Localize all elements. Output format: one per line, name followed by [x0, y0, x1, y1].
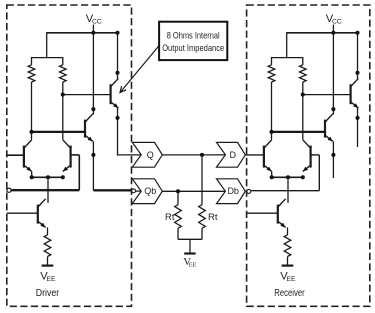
transistor Q7 (receiver diff pair right)	[310, 146, 312, 168]
wire R1 to collector node	[31, 82, 33, 132]
svg-text:VCC: VCC	[86, 13, 102, 26]
junction dot rail right end (receiver)	[355, 31, 359, 35]
junction dot Q9 collector node	[331, 107, 335, 111]
resistor R1	[28, 65, 35, 82]
svg-text:Rt: Rt	[208, 212, 218, 223]
svg-text:Driver: Driver	[36, 288, 60, 299]
transistor Q1 (driver diff pair left)	[23, 146, 25, 168]
wire input line to Q2 base corner	[11, 189, 79, 191]
wire emitter rail (driver)	[32, 176, 63, 178]
svg-text:VEE: VEE	[183, 256, 196, 269]
junction dot rail right end (driver)	[115, 31, 119, 35]
wire Q output to D input	[162, 154, 225, 156]
annotation box 8 Ohms Internal Output Impedance	[159, 22, 227, 60]
annotation arrow line	[120, 46, 159, 93]
transistor Q4 (driver phase splitter)	[84, 120, 86, 138]
wire Q4 emitter to Qb input	[93, 189, 131, 191]
wire VCC rail (driver)	[47, 32, 118, 34]
wire Q7 base corner down	[318, 155, 320, 191]
svg-text:Qb: Qb	[144, 186, 156, 196]
transistor Q3 (driver output emitter follower)	[109, 84, 111, 104]
svg-text:VEE: VEE	[280, 270, 296, 283]
resistor R3 (driver emitter resistor)	[44, 235, 51, 257]
resistor R2 stub	[62, 57, 64, 65]
wire Q5 base from box edge	[7, 212, 37, 214]
wire node B down to Q7 collector	[302, 95, 304, 140]
resistor R1 stub	[31, 57, 33, 65]
wire Q9 emitter down (open stub)	[332, 141, 334, 178]
svg-text:VEE: VEE	[40, 270, 56, 283]
junction dot emitter rail right (receiver)	[301, 175, 305, 179]
annotation arrowhead	[120, 86, 126, 93]
wire Q4 emitter down to Qb feed	[92, 141, 94, 190]
svg-text:Q: Q	[147, 150, 154, 160]
svg-text:8 Ohms Internal: 8 Ohms Internal	[167, 30, 220, 40]
transistor Q10 (receiver current source)	[277, 205, 279, 224]
svg-text:Rt: Rt	[165, 212, 175, 223]
wire Q10 emitter down to R6	[287, 227, 289, 235]
junction dot emitter rail mid (receiver)	[286, 175, 290, 179]
wire down to Rt left	[177, 191, 179, 204]
VEE rail symbol (driver)	[42, 265, 54, 267]
junction dot node B	[301, 93, 305, 97]
svg-text:VCC: VCC	[326, 13, 342, 26]
wire R1 node down to Q1 collector	[31, 132, 33, 140]
wire Q6 emitter down to rail	[271, 171, 273, 177]
buffer D	[217, 142, 246, 167]
wire bubble to Qb notch	[136, 190, 142, 192]
junction dot Q4 collector node (93.4,109.2)	[91, 107, 95, 111]
wire node A to Q3 base	[63, 94, 111, 96]
wire Q10 base from box edge	[247, 212, 277, 214]
buffer Qb	[132, 179, 162, 204]
transistor Q8 (receiver emitter follower)	[350, 84, 352, 104]
input terminal circle Io	[7, 188, 11, 192]
wire Q2 base to corner	[71, 154, 79, 156]
resistor Rt left	[175, 205, 182, 229]
wire rail-left drop (receiver)	[286, 32, 288, 57]
resistor R4	[268, 65, 275, 82]
junction dot left collector node (31.5,131.9)	[29, 130, 33, 134]
wire emitter rail (receiver)	[272, 176, 303, 178]
buffer Q	[132, 142, 162, 167]
svg-text:Receiver: Receiver	[274, 288, 305, 299]
junction dot on Q8 collector line	[355, 71, 359, 75]
buffer Db output bubble	[247, 189, 251, 193]
wire node A down to Q2 collector	[62, 95, 64, 140]
VEE rail symbol (receiver)	[282, 265, 294, 267]
junction dot emitter rail left	[30, 175, 34, 179]
wire thick base line to Q4	[32, 131, 85, 133]
resistor R4 stub	[271, 57, 273, 65]
transistor Q9 (receiver phase splitter)	[324, 120, 326, 138]
buffer Qb input bubble	[132, 189, 136, 193]
svg-text:D: D	[229, 150, 236, 160]
wire tail down to Q5	[47, 177, 49, 203]
resistor R6 (receiver emitter resistor)	[284, 235, 291, 257]
VEE rail symbol (middle)	[184, 252, 195, 254]
wire Q8 collector up to rail	[357, 33, 359, 79]
wire Q3 emitter down	[117, 108, 119, 156]
wire VEE stub (middle)	[189, 239, 191, 252]
wire Rt right bottom	[201, 228, 203, 239]
wire Q8 emitter down (open stub)	[357, 108, 359, 147]
wire resistor tee (receiver)	[272, 57, 303, 59]
svg-text:Output Impedance: Output Impedance	[162, 43, 224, 53]
transistor Q6 (receiver diff pair left)	[263, 146, 265, 168]
junction dot emitter rail mid	[46, 175, 50, 179]
wire Q2 base corner down to input line	[78, 155, 80, 190]
resistor R2	[60, 65, 67, 82]
resistor Rt right	[199, 205, 206, 229]
junction dot VCC stub/rail (driver)	[91, 31, 95, 35]
wire VCC stub (receiver)	[332, 25, 334, 115]
wire Q3 collector up to rail	[117, 33, 119, 79]
junction dot node A (62.8,94.6)	[61, 93, 65, 97]
transistor Q2 (driver diff pair right)	[69, 146, 71, 168]
wire joining Rt bottoms	[178, 238, 202, 240]
junction dot VCC stub/rail (receiver)	[331, 31, 335, 35]
wire thick base line to Q9	[272, 131, 325, 133]
wire R4 to collector node	[271, 82, 273, 132]
junction dot emitter rail left (receiver)	[270, 175, 274, 179]
wire Q5 emitter down to R3	[47, 227, 49, 235]
wire R2 down to node A	[62, 82, 64, 95]
junction dot left collector node (receiver)	[269, 130, 273, 134]
wire resistor tee (driver)	[32, 57, 63, 59]
wire R4 node down to Q6 collector	[271, 132, 273, 140]
wire tail down to Q10	[287, 177, 289, 203]
junction dot on Q9 emitter line	[331, 153, 335, 157]
junction dot Qb-Db line (178,191.3)	[176, 189, 180, 193]
receiver dashed box	[247, 5, 370, 306]
wire Q7 base to corner	[311, 154, 319, 156]
resistor R5 stub	[302, 57, 304, 65]
wire D output to Q6 base	[245, 154, 263, 156]
wire Q1 base stub from box edge	[7, 154, 23, 156]
junction dot on Q3 collector line	[115, 71, 119, 75]
driver dashed box	[7, 5, 132, 306]
wire Rt left bottom	[177, 228, 179, 239]
resistor R5	[300, 65, 307, 82]
svg-text:Db: Db	[227, 186, 239, 196]
junction dot on Q4 emitter line (93.4,154.9)	[91, 153, 95, 157]
junction dot Q-D line (202,154.9)	[200, 153, 204, 157]
wire node B to Q8 base	[303, 94, 351, 96]
wire Qb output to Db input	[162, 190, 225, 192]
wire Q1 emitter down to rail	[31, 171, 33, 177]
junction dot emitter rail right	[61, 175, 65, 179]
wire Q3 emitter to Q buffer input	[117, 154, 141, 156]
junction dot on Q8 emitter line	[355, 116, 359, 120]
wire R5 down to node B	[302, 82, 304, 95]
buffer Db	[217, 179, 246, 204]
wire R6 to VEE	[287, 257, 289, 266]
wire VCC stub (driver) x=93.4	[92, 25, 94, 115]
wire rail-left drop (driver)	[46, 32, 48, 57]
transistor Q5 (driver current source)	[37, 205, 39, 224]
wire R3 to VEE	[47, 257, 49, 266]
junction dot on Q3 emitter line	[115, 116, 119, 120]
wire down to Rt right	[201, 155, 203, 205]
wire Db output to Q7 base corner	[251, 190, 319, 192]
wire VCC rail (receiver)	[287, 32, 358, 34]
